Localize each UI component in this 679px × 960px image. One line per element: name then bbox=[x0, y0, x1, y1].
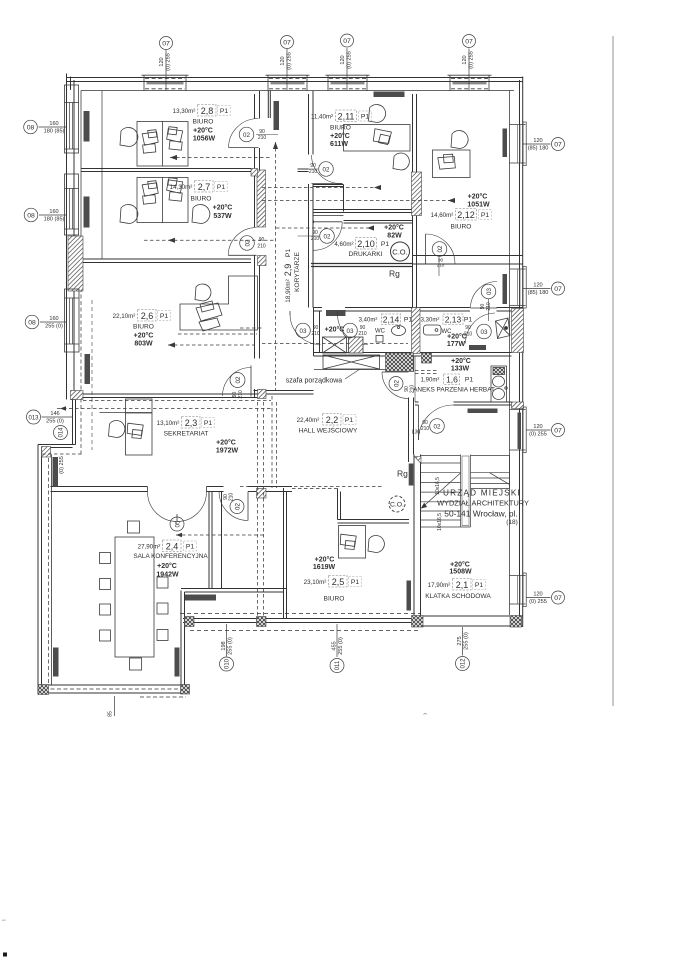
double door 05 conference bbox=[148, 487, 207, 522]
szafa porzadkowa box bbox=[323, 355, 380, 369]
label room 2.5 bbox=[304, 556, 362, 603]
arrow 2.11 bbox=[374, 185, 381, 190]
svg-text:P1: P1 bbox=[465, 377, 474, 384]
svg-text:P1: P1 bbox=[217, 184, 226, 191]
svg-text:02: 02 bbox=[235, 376, 242, 383]
svg-text:P1: P1 bbox=[481, 212, 490, 219]
annex bottom wall bbox=[415, 402, 512, 405]
conference chairs left bbox=[100, 553, 111, 642]
svg-text:+20°C: +20°C bbox=[450, 561, 470, 569]
corridor bottom wall bbox=[254, 391, 314, 395]
conference chair top bbox=[128, 521, 140, 533]
grid tick top 1 bbox=[165, 50, 167, 90]
svg-text:180 (85): 180 (85) bbox=[44, 129, 65, 135]
niche line below 2.11 wall bbox=[314, 215, 344, 217]
hall to 2.5 open boundary dashed bbox=[292, 488, 338, 490]
door label 2.13 lower 03 bbox=[464, 324, 491, 339]
svg-text:02: 02 bbox=[245, 239, 252, 246]
label WC 2.13 bbox=[421, 314, 473, 348]
svg-text:BIURO: BIURO bbox=[330, 125, 351, 132]
door room 2.11 bbox=[312, 155, 343, 184]
dim left3 bbox=[45, 316, 63, 330]
wall between 2.7 and 2.6 bbox=[81, 259, 251, 263]
door label WC 2.13 bbox=[343, 323, 367, 338]
shelf strip bottom line bbox=[314, 369, 409, 371]
pipe hall bottom bbox=[240, 486, 383, 488]
stair flight2 steps bbox=[471, 455, 510, 489]
svg-text:3,30m²: 3,30m² bbox=[421, 318, 440, 324]
grid tick top 2 bbox=[286, 49, 288, 90]
radiator staircase top bbox=[468, 409, 498, 414]
svg-text:133W: 133W bbox=[451, 366, 470, 373]
corridor duct lines bbox=[268, 91, 270, 118]
label staircase 2.1 bbox=[425, 561, 491, 601]
svg-text:27,90m²: 27,90m² bbox=[138, 544, 161, 551]
dim bottom 010 bbox=[221, 637, 234, 655]
hatch terrace block left bbox=[185, 617, 195, 627]
svg-text:013: 013 bbox=[28, 416, 39, 422]
radiator staircase window bar bbox=[518, 413, 522, 450]
hatch corridor left wall block2 bbox=[258, 256, 267, 266]
conference right wall upper bbox=[209, 492, 222, 589]
door room 2.6 bbox=[223, 366, 252, 397]
leader right 1 bbox=[523, 143, 551, 145]
hall right wall upper bbox=[409, 356, 414, 372]
dim right2 bbox=[528, 283, 549, 297]
svg-text:P1: P1 bbox=[351, 579, 360, 586]
WC top wall bbox=[314, 308, 524, 312]
svg-text:(85) 180: (85) 180 bbox=[528, 146, 549, 152]
door label 2.7 bbox=[240, 236, 266, 251]
annex left wall stub bbox=[414, 356, 416, 402]
hatch right wall annex bottom bbox=[512, 402, 524, 409]
conference left wall bbox=[38, 445, 42, 695]
label room 2.12 bbox=[431, 193, 492, 231]
radiator corridor top bbox=[274, 101, 280, 130]
svg-text:02: 02 bbox=[243, 132, 250, 139]
svg-text:07: 07 bbox=[554, 595, 562, 602]
svg-text:+20°C: +20°C bbox=[468, 193, 488, 201]
grid tick top 4 bbox=[468, 49, 470, 91]
svg-text:1972W: 1972W bbox=[216, 448, 239, 455]
hall south wall with openings bbox=[51, 487, 293, 492]
door label 2.6 bbox=[230, 373, 245, 399]
pipe corridor vertical bbox=[275, 142, 277, 390]
svg-text:22,40m²: 22,40m² bbox=[297, 417, 320, 424]
label room 2.11 bbox=[311, 110, 372, 148]
conference chair bottom bbox=[130, 658, 142, 670]
lounge chair 2.11 bottom bbox=[393, 153, 409, 170]
svg-text:14,60m²: 14,60m² bbox=[431, 212, 454, 219]
door right small room 03 bbox=[471, 282, 498, 309]
dim left wall vertical bbox=[59, 456, 65, 474]
svg-text:1051W: 1051W bbox=[467, 202, 490, 209]
svg-text:+20°C: +20°C bbox=[330, 132, 350, 140]
svg-text:P1: P1 bbox=[220, 108, 229, 115]
stair landing line bbox=[471, 455, 510, 457]
lounge chair 2.5 bbox=[368, 536, 384, 553]
wall inner face top bbox=[81, 90, 514, 92]
svg-text:210: 210 bbox=[421, 426, 430, 432]
hatch right wall annex top bbox=[512, 309, 524, 353]
conference bottom wall bbox=[38, 685, 185, 693]
pipe room 2.7 bbox=[144, 239, 274, 241]
vestibule right wall bbox=[284, 488, 287, 619]
corridor right wall segments bbox=[309, 91, 314, 155]
alcove dashed line bbox=[42, 453, 83, 455]
label sekretariat 2.3 bbox=[157, 417, 239, 455]
grid circle right 4 bbox=[552, 591, 565, 604]
hatch corridor left wall block1 bbox=[257, 170, 266, 227]
door hall to staircase bbox=[419, 405, 454, 440]
radiator WC 2.13 bottom bbox=[469, 345, 486, 350]
svg-text:146: 146 bbox=[50, 411, 59, 417]
label room 2.8 bbox=[173, 105, 231, 143]
door drukarki bbox=[314, 222, 343, 251]
hatch staircase bottom-right bbox=[510, 616, 522, 628]
window left 1 bbox=[65, 85, 79, 153]
room 2.5 left stub wall bbox=[338, 489, 341, 520]
svg-text:198: 198 bbox=[221, 641, 227, 650]
svg-text:3,40m²: 3,40m² bbox=[359, 318, 378, 324]
conference step wall bbox=[181, 589, 287, 593]
door room 2.13 lower bbox=[466, 313, 496, 344]
dim top1 bbox=[159, 53, 172, 71]
hatch left wall big bbox=[68, 236, 83, 291]
hatch staircase bottom-left bbox=[412, 616, 424, 628]
dim right4 bbox=[529, 592, 547, 606]
door label small room 03 bbox=[480, 284, 496, 321]
left wall step bbox=[71, 400, 76, 445]
svg-text:(0) 255: (0) 255 bbox=[469, 51, 475, 69]
svg-text:2,10: 2,10 bbox=[357, 239, 375, 249]
svg-text:07: 07 bbox=[554, 142, 562, 149]
WC bottom wall / annex top bbox=[314, 353, 512, 357]
svg-text:(0) 255: (0) 255 bbox=[59, 456, 65, 474]
svg-text:HALL WEJŚCIOWY: HALL WEJŚCIOWY bbox=[299, 426, 358, 435]
window top 2 bbox=[266, 75, 310, 91]
svg-text:1508W: 1508W bbox=[449, 569, 472, 576]
wall below 2.12 bbox=[413, 256, 524, 265]
svg-text:10x16,5: 10x16,5 bbox=[435, 477, 441, 495]
svg-text:1,90m²: 1,90m² bbox=[421, 378, 440, 384]
svg-text:C.O.: C.O. bbox=[390, 502, 404, 509]
grid circle top 4 bbox=[463, 35, 476, 48]
door room 2.12 bbox=[426, 234, 456, 264]
leader left 4 bbox=[42, 416, 73, 418]
grid circle left 4 bbox=[27, 410, 41, 424]
svg-text:2,13: 2,13 bbox=[445, 315, 462, 325]
window top 3 bbox=[326, 75, 370, 91]
closet in room 2.11 corner bbox=[314, 185, 344, 212]
svg-text:210: 210 bbox=[311, 236, 320, 242]
pipe room 2.6 bbox=[168, 344, 255, 346]
hatch shaft crosshatch bbox=[386, 353, 414, 372]
tick bottom 012 bbox=[462, 627, 464, 656]
svg-text:210: 210 bbox=[258, 135, 267, 141]
lounge chair 2.7 left bbox=[120, 205, 138, 224]
pipe wc row horizontal bbox=[262, 343, 408, 345]
svg-text:07: 07 bbox=[465, 39, 473, 46]
dashed line room 2.6 interior bbox=[91, 300, 93, 450]
hatch terrace block mid bbox=[257, 617, 267, 627]
terrace wall bbox=[183, 619, 413, 623]
desk sekretariat bbox=[126, 399, 153, 455]
door label staircase bbox=[412, 419, 444, 436]
grid circle left 3 bbox=[25, 315, 39, 329]
grid circle 012 bbox=[456, 657, 470, 671]
pipe room 2.6 under desk bbox=[178, 333, 257, 335]
label room 2.6 bbox=[113, 310, 171, 348]
stair flight1 steps bbox=[421, 456, 471, 528]
dim top2 bbox=[280, 52, 293, 70]
sekretariat sideboard line bbox=[100, 412, 153, 414]
conference bottom wall dashes bbox=[44, 688, 179, 690]
svg-text:120: 120 bbox=[533, 424, 542, 430]
svg-text:P1: P1 bbox=[464, 317, 473, 324]
chair sekretariat bbox=[109, 421, 125, 438]
leader left 1 bbox=[39, 126, 67, 128]
hall right wall lower bbox=[409, 398, 414, 463]
svg-text:2,2: 2,2 bbox=[326, 415, 339, 425]
svg-text:10x16,5: 10x16,5 bbox=[437, 513, 443, 531]
conference table bbox=[115, 537, 154, 657]
desk 2.12 bbox=[433, 150, 471, 178]
svg-text:BIURO: BIURO bbox=[324, 596, 345, 603]
svg-text:(85) 180: (85) 180 bbox=[528, 290, 549, 296]
lounge chair 2.7 right bbox=[192, 205, 210, 224]
svg-text:120: 120 bbox=[340, 55, 346, 64]
room 2.5 top wall bbox=[338, 520, 410, 524]
svg-text:120: 120 bbox=[159, 57, 165, 66]
leader left 3 bbox=[40, 321, 67, 323]
svg-text:11,40m²: 11,40m² bbox=[311, 114, 333, 121]
radiator recess horizontal bbox=[185, 595, 216, 601]
arrow conference pipe bbox=[176, 533, 182, 537]
desk group 2.8 bbox=[137, 122, 188, 167]
leader right 2 bbox=[523, 288, 551, 290]
line room divider x102 bbox=[101, 91, 103, 259]
svg-text:2,8: 2,8 bbox=[201, 106, 214, 116]
svg-text:URZĄD MIEJSKI: URZĄD MIEJSKI bbox=[443, 489, 521, 498]
stair arrow bbox=[422, 503, 427, 508]
svg-text:255 (0): 255 (0) bbox=[338, 637, 344, 655]
svg-text:2,5: 2,5 bbox=[332, 577, 345, 587]
grid tick top 3 bbox=[346, 48, 348, 90]
arrow drukarki bbox=[367, 225, 374, 230]
wall between 2.11 2.12 bbox=[413, 94, 417, 264]
pipe annex dashes bbox=[415, 371, 437, 374]
label conference 2.4 bbox=[133, 540, 208, 579]
hatch corridor bottom block bbox=[258, 390, 267, 399]
grid circle top 1 bbox=[160, 37, 173, 50]
desk 2.6 L-shape bbox=[180, 276, 258, 331]
svg-text:180 (85): 180 (85) bbox=[44, 217, 65, 223]
svg-text:SEKRETARIAT: SEKRETARIAT bbox=[164, 431, 209, 438]
desk 2.11 bbox=[344, 125, 411, 152]
hatch vestibule top block bbox=[257, 489, 267, 499]
svg-text:2,14: 2,14 bbox=[383, 315, 400, 325]
svg-text:2,12: 2,12 bbox=[457, 210, 475, 220]
svg-text:(0) 255: (0) 255 bbox=[347, 51, 353, 69]
svg-text:03: 03 bbox=[300, 328, 307, 335]
desk 2.5 bbox=[339, 526, 366, 559]
svg-text:C.O.: C.O. bbox=[392, 248, 407, 257]
door label 2.8 bbox=[239, 127, 278, 142]
dim left1 bbox=[44, 121, 65, 135]
svg-text:02: 02 bbox=[394, 380, 401, 387]
svg-text:120: 120 bbox=[533, 283, 542, 289]
grid circle top 2 bbox=[281, 36, 294, 49]
svg-text:455: 455 bbox=[332, 641, 338, 650]
svg-text:07: 07 bbox=[162, 41, 170, 48]
svg-text:BIURO: BIURO bbox=[133, 324, 154, 331]
grid circle left 1 bbox=[24, 120, 38, 134]
right small room left wall bbox=[413, 264, 417, 308]
svg-text:BIURO: BIURO bbox=[451, 224, 472, 231]
door room 2.8 bbox=[229, 118, 259, 147]
stub wall left of room 2.11 bbox=[298, 169, 309, 172]
svg-text:(0) 255: (0) 255 bbox=[529, 432, 547, 438]
svg-text:210: 210 bbox=[437, 263, 445, 268]
svg-text:(0) 255: (0) 255 bbox=[287, 52, 293, 70]
arrow corridor up bbox=[273, 142, 278, 149]
svg-text:BIURO: BIURO bbox=[191, 196, 212, 203]
svg-text:22,10m²: 22,10m² bbox=[113, 313, 136, 320]
room 2.11 bottom wall bbox=[313, 210, 413, 213]
svg-text:P1: P1 bbox=[285, 249, 292, 258]
staircase left wall bbox=[414, 455, 421, 617]
svg-text:WYDZIAŁ ARCHITEKTURY: WYDZIAŁ ARCHITEKTURY bbox=[437, 499, 529, 508]
radiator room 2.5 right bbox=[407, 581, 412, 611]
hatch conference bottom-right corner bbox=[181, 685, 190, 695]
svg-text:255 (0): 255 (0) bbox=[228, 637, 234, 655]
pipe conference horizontal bbox=[176, 534, 265, 536]
hatch wall between 2.14 and 2.13 bbox=[412, 308, 421, 354]
svg-text:P1: P1 bbox=[186, 544, 195, 551]
WC 2.13 toilet bbox=[496, 318, 511, 339]
label annex 1.6 bbox=[413, 357, 495, 394]
svg-text:05: 05 bbox=[175, 520, 182, 527]
svg-text:85: 85 bbox=[108, 711, 114, 717]
svg-text:120: 120 bbox=[462, 55, 468, 64]
pipe to 2.12 bbox=[262, 200, 455, 202]
outer wall left upper bbox=[67, 74, 75, 400]
svg-text:1619W: 1619W bbox=[313, 564, 336, 571]
svg-text:08: 08 bbox=[27, 213, 35, 220]
door WC 2.13 left bbox=[338, 311, 369, 345]
drukarki bottom wall bbox=[311, 264, 413, 267]
dim left2 bbox=[44, 209, 65, 223]
svg-text:+20°C: +20°C bbox=[447, 333, 467, 341]
svg-text:07: 07 bbox=[554, 286, 562, 293]
pipe vestibule vertical 2 bbox=[263, 402, 265, 616]
door vestibule 02 bbox=[219, 492, 248, 521]
svg-text:177W: 177W bbox=[447, 341, 466, 348]
grid circle right 2 bbox=[552, 282, 565, 295]
scanner vertical line bbox=[612, 36, 614, 706]
svg-text:13,30m²: 13,30m² bbox=[173, 108, 196, 115]
arrow 2.6 bbox=[168, 342, 175, 347]
pipe drukarki bbox=[276, 227, 374, 229]
svg-text:ANEKS PARZENIA HERBAT: ANEKS PARZENIA HERBAT bbox=[413, 387, 495, 394]
WC 2.13 sink bbox=[424, 325, 442, 335]
svg-text:014: 014 bbox=[59, 427, 65, 438]
dim bottom 011 bbox=[332, 637, 345, 655]
outer wall right bbox=[520, 77, 523, 628]
svg-text:P1: P1 bbox=[361, 114, 370, 121]
dim left4 bbox=[46, 411, 64, 425]
svg-text:4,60m²: 4,60m² bbox=[334, 241, 353, 248]
svg-text:255 (0): 255 (0) bbox=[46, 419, 64, 425]
scanner faint dash left bbox=[2, 920, 6, 922]
pipe hall vertical 2 bbox=[276, 402, 278, 488]
grid circle 014 rotated bbox=[54, 426, 68, 440]
window right 1 bbox=[510, 122, 527, 166]
hatch corridor junction small bbox=[251, 169, 258, 177]
grid circle left 2 bbox=[24, 208, 38, 222]
svg-text:Rg: Rg bbox=[389, 269, 400, 279]
arrow 2.7 bbox=[168, 238, 175, 243]
door room 2.7 bbox=[228, 228, 256, 256]
WC 2.14 toilet bbox=[323, 337, 347, 353]
dim right1 bbox=[528, 138, 549, 152]
label corridor 2.9 rotated bbox=[283, 249, 301, 303]
pipe room 2.8 bbox=[170, 157, 272, 159]
stair diagonal walk line bbox=[422, 473, 510, 508]
svg-text:012: 012 bbox=[461, 658, 467, 669]
svg-text:03: 03 bbox=[486, 288, 493, 295]
window right 3 bbox=[510, 407, 527, 453]
hatch conference bottom-left corner bbox=[38, 685, 49, 695]
stair center rail bbox=[461, 455, 471, 528]
hatch conference top-left corner bbox=[42, 447, 51, 458]
svg-text:160: 160 bbox=[49, 209, 58, 215]
svg-text:02: 02 bbox=[434, 424, 441, 431]
door label WC 2.14 bbox=[296, 323, 320, 338]
svg-text:50-141 Wrocław, pl.: 50-141 Wrocław, pl. bbox=[444, 509, 517, 519]
svg-text:03: 03 bbox=[347, 328, 354, 335]
svg-text:P1: P1 bbox=[404, 317, 413, 324]
svg-text:2,1: 2,1 bbox=[456, 580, 469, 590]
tick bottom 010 bbox=[226, 624, 228, 657]
radiator sekretariat alcove bbox=[53, 457, 59, 487]
C.O. circle staircase dashed bbox=[389, 496, 405, 512]
svg-text:07: 07 bbox=[343, 38, 351, 45]
svg-text:210: 210 bbox=[309, 169, 318, 175]
C.O. circle drukarki bbox=[391, 242, 410, 261]
svg-text:P1: P1 bbox=[160, 313, 169, 320]
window right 4 bbox=[510, 573, 527, 607]
dim bottom 012 bbox=[457, 632, 470, 650]
label drukarki 2.10 bbox=[334, 224, 404, 259]
arrow 2.8 bbox=[170, 155, 177, 160]
svg-text:08: 08 bbox=[27, 125, 35, 132]
svg-text:275: 275 bbox=[457, 636, 463, 645]
svg-text:2,3: 2,3 bbox=[185, 418, 198, 428]
svg-text:P1: P1 bbox=[204, 420, 213, 427]
kitchen sink annex bbox=[491, 366, 507, 402]
svg-text:14,30m²: 14,30m² bbox=[170, 184, 193, 191]
svg-text:18,90m²: 18,90m² bbox=[285, 279, 292, 302]
door WC 2.14 bbox=[290, 311, 321, 345]
hatch wall between 2.11 and 2.12 bbox=[412, 172, 422, 216]
svg-text:(18): (18) bbox=[506, 519, 518, 526]
pipe room 2.11 bbox=[262, 187, 382, 189]
svg-text:07: 07 bbox=[283, 40, 291, 47]
sekretariat alcove wall bbox=[38, 445, 76, 448]
arrow sekretariat bbox=[60, 406, 66, 410]
